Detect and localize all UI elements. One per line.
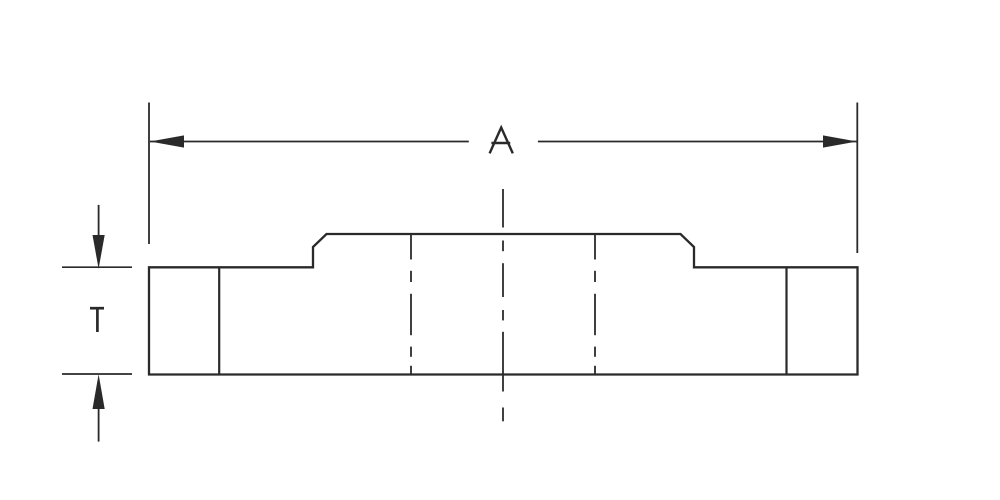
label A (490, 128, 513, 154)
extension line right (dimension A) (856, 103, 858, 254)
arrowhead left (dimension A) (150, 135, 184, 147)
label T (90, 307, 104, 332)
centerline (vertical axis) (502, 189, 504, 421)
dimension line A left segment (150, 141, 469, 143)
dimension line A right segment (538, 141, 857, 143)
hub boundary line right (785, 267, 787, 374)
bolt hole centerline left (410, 234, 412, 375)
arrow down (dimension T, above) (98, 205, 100, 236)
bolt hole centerline right (594, 234, 596, 375)
extension line left (dimension A) (148, 103, 150, 245)
arrow up (dimension T, below) (98, 409, 100, 442)
tick line bottom (dimension T) (62, 373, 132, 375)
hub boundary line left (218, 267, 220, 374)
flange outline (149, 234, 858, 375)
arrowhead right (dimension A) (823, 135, 857, 147)
tick line top (dimension T) (62, 266, 132, 268)
